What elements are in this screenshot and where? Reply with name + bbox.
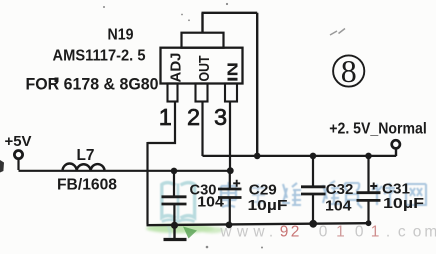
svg-text:2: 2 (291, 224, 300, 241)
svg-text:w: w (252, 224, 265, 241)
svg-text:C32: C32 (326, 182, 354, 198)
svg-text:8: 8 (341, 53, 357, 89)
svg-text:0: 0 (355, 224, 364, 241)
svg-text:AMS1117-2. 5: AMS1117-2. 5 (53, 47, 146, 64)
svg-text:FOR 6178 & 8G80: FOR 6178 & 8G80 (26, 76, 159, 94)
svg-text:c: c (398, 224, 406, 241)
svg-text:ADJ: ADJ (169, 53, 185, 83)
svg-text:OUT: OUT (197, 55, 213, 81)
svg-text:FB/1608: FB/1608 (57, 177, 117, 194)
svg-text:+2. 5V_Normal: +2. 5V_Normal (329, 121, 427, 138)
svg-text:C29: C29 (249, 182, 277, 198)
svg-text:L7: L7 (77, 147, 95, 164)
svg-text:1: 1 (336, 224, 345, 241)
svg-text:10µF: 10µF (248, 198, 288, 214)
svg-text:9: 9 (280, 224, 289, 241)
svg-text:w: w (236, 224, 249, 241)
svg-text:.: . (269, 224, 273, 241)
svg-text:o: o (413, 224, 422, 241)
svg-text:3: 3 (214, 104, 227, 130)
svg-text:IN: IN (226, 62, 242, 82)
svg-text:104: 104 (325, 199, 352, 215)
svg-text:0: 0 (319, 224, 328, 241)
svg-text:+5V: +5V (5, 133, 32, 150)
svg-text:2: 2 (187, 104, 200, 130)
svg-text:N19: N19 (108, 26, 134, 43)
svg-text:1: 1 (159, 104, 172, 130)
svg-text:.: . (386, 224, 390, 241)
svg-text:104: 104 (197, 194, 224, 210)
svg-text:10µF: 10µF (383, 196, 424, 212)
svg-text:m: m (424, 224, 436, 241)
svg-text:1: 1 (371, 224, 380, 241)
